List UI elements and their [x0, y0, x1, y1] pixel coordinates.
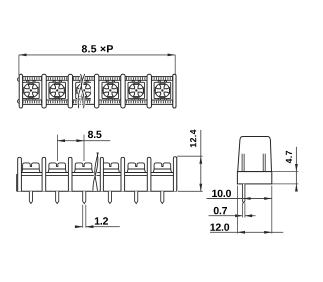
- screw terminal 4 top view: [102, 81, 119, 100]
- wall 3 (front view): [68, 157, 72, 191]
- side view housing tower: [238, 137, 272, 172]
- screw terminal 5 top view: [128, 81, 145, 100]
- solder pin 3 (front view): [83, 191, 86, 203]
- dimension 10.0 pin to face (side view): [207, 190, 272, 200]
- knurled edge ticks (top band): [23, 77, 173, 80]
- screw terminal 6 top view: [154, 81, 171, 100]
- front view body base outline: [17, 157, 177, 191]
- wall 4 (front view): [100, 157, 103, 191]
- right end wall (top view): [173, 74, 176, 108]
- screw terminal 1 top view: [23, 81, 40, 100]
- barrier wall 4 (top view): [121, 74, 125, 108]
- wall 1 (front view): [18, 157, 22, 191]
- barrier wall 1 (top view): [42, 74, 46, 108]
- terminal block body (top view): [19, 77, 176, 105]
- screw channel slots (side view): [242, 154, 265, 172]
- screw head pole 5 (front view): [127, 163, 145, 173]
- dimension 12.4 overall height (front view): [177, 130, 202, 192]
- dimension 8.5 pitch (front view): [57, 131, 110, 161]
- screw head pole 6 (front view): [153, 163, 171, 173]
- barrier wall 2 (top view): [68, 74, 72, 108]
- wall 2 (front view): [42, 157, 46, 191]
- break lines (front view, between pole 3 and 4): [93, 152, 98, 191]
- side view base block: [237, 172, 271, 184]
- wall 7 (front view): [173, 157, 176, 192]
- wall 6 (front view): [147, 157, 151, 191]
- dimension 8.5 x P overall pitch dimension: [19, 45, 175, 75]
- screw head pole 4 (front view): [101, 163, 119, 173]
- screw terminal 3 (at break) top view: [76, 81, 93, 100]
- screw head pole 2 (front view): [48, 163, 66, 173]
- solder pin 4 (front view): [108, 191, 111, 203]
- cell shelf lines (front view): [21, 173, 173, 176]
- solder pin 2 (front view): [56, 191, 59, 203]
- break lines through terminal 3 (top view): [78, 74, 95, 108]
- dimension 12.0 overall depth (side view): [210, 186, 283, 234]
- screw head pole 3 (front view): [74, 163, 92, 173]
- dimension 0.7 pin thickness (side view): [209, 203, 256, 218]
- solder pin 5 (front view): [135, 191, 138, 203]
- barrier wall 3 (top view): [94, 74, 98, 108]
- wall 5 (front view): [121, 157, 125, 191]
- barrier wall 5 (top view): [147, 74, 151, 108]
- solder pin 1 (front view): [29, 191, 32, 203]
- dimension 4.7 base height (side view): [272, 147, 298, 192]
- screw terminal 2 top view: [49, 81, 66, 100]
- knurled edge ticks (bottom band): [23, 101, 173, 104]
- solder pin (side view): [242, 184, 245, 203]
- left end wall with mounting lugs (top view): [18, 74, 23, 108]
- solder pin 6 (front view): [161, 191, 164, 203]
- dimension 1.2 pin width (front view): [75, 205, 120, 228]
- screw head pole 1 (front view): [22, 163, 40, 173]
